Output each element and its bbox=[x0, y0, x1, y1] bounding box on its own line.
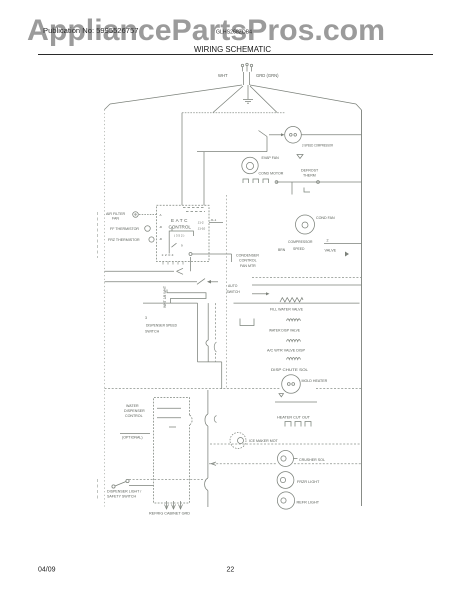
svg-text:DEFROST: DEFROST bbox=[301, 169, 319, 173]
svg-text:SWITCH: SWITCH bbox=[227, 290, 241, 294]
svg-text:SWITCH: SWITCH bbox=[145, 330, 160, 334]
svg-text:SPEED: SPEED bbox=[293, 247, 305, 251]
svg-text:DISPENSER: DISPENSER bbox=[124, 409, 145, 413]
svg-text:-D: -D bbox=[159, 225, 163, 229]
svg-text:COMPRESSOR: COMPRESSOR bbox=[288, 240, 313, 244]
svg-text:2-SPEED COMPRESSOR: 2-SPEED COMPRESSOR bbox=[302, 143, 333, 147]
svg-text:9: 9 bbox=[181, 244, 183, 248]
svg-text:J1-2: J1-2 bbox=[198, 221, 204, 225]
svg-text:REFRIG CABINET GRD: REFRIG CABINET GRD bbox=[149, 512, 190, 516]
svg-text:( 3 5 2 ): ( 3 5 2 ) bbox=[174, 234, 184, 238]
svg-text:Publication No: 5995526757: Publication No: 5995526757 bbox=[43, 26, 138, 35]
svg-text:(OPTIONAL): (OPTIONAL) bbox=[122, 436, 143, 440]
svg-text:EVAP FAN: EVAP FAN bbox=[262, 156, 280, 160]
svg-text:FF THERMISTOR: FF THERMISTOR bbox=[110, 227, 139, 231]
svg-text:WHT 1/8 WHT: WHT 1/8 WHT bbox=[163, 286, 167, 308]
svg-text:FAN: FAN bbox=[112, 217, 119, 221]
svg-text:3: 3 bbox=[145, 316, 147, 320]
svg-text:MOLD HEATER: MOLD HEATER bbox=[302, 379, 328, 383]
svg-text:WIRING SCHEMATIC: WIRING SCHEMATIC bbox=[194, 45, 271, 54]
svg-text:FRZR LIGHT: FRZR LIGHT bbox=[297, 480, 320, 484]
svg-text:2: 2 bbox=[327, 239, 329, 243]
svg-text:GRD (GRN): GRD (GRN) bbox=[256, 73, 279, 78]
svg-text:THERM: THERM bbox=[303, 174, 316, 178]
svg-text:FAN MTR: FAN MTR bbox=[240, 264, 256, 268]
svg-text:J1-10: J1-10 bbox=[198, 227, 206, 231]
svg-text:DISPENSER SPEED: DISPENSER SPEED bbox=[146, 324, 177, 328]
svg-text:REFR LIGHT: REFR LIGHT bbox=[297, 501, 320, 505]
svg-text:04/09: 04/09 bbox=[38, 567, 56, 574]
svg-text:AUTO: AUTO bbox=[228, 284, 238, 288]
svg-text:BRN: BRN bbox=[278, 248, 286, 252]
svg-text:ICE MAKER MOT: ICE MAKER MOT bbox=[249, 439, 279, 443]
svg-text:DISPENSER LIGHT /: DISPENSER LIGHT / bbox=[107, 490, 141, 494]
svg-text:DISP CHUTE SOL: DISP CHUTE SOL bbox=[271, 368, 308, 372]
svg-text:WATER DISP VALVE: WATER DISP VALVE bbox=[269, 329, 301, 333]
svg-text:FILL WATER VALVE: FILL WATER VALVE bbox=[270, 308, 304, 312]
svg-text:FRZ THERMISTOR: FRZ THERMISTOR bbox=[108, 238, 140, 242]
svg-text:A: A bbox=[160, 213, 162, 217]
svg-text:-D: -D bbox=[159, 237, 163, 241]
svg-text:CONDENSER: CONDENSER bbox=[236, 254, 259, 258]
svg-text:J1-1: J1-1 bbox=[211, 218, 217, 222]
svg-text:CONTROL: CONTROL bbox=[125, 414, 143, 418]
svg-text:HEATER CUT OUT: HEATER CUT OUT bbox=[277, 416, 311, 420]
svg-text:COND FAN: COND FAN bbox=[316, 216, 335, 220]
svg-text:COND MOTOR: COND MOTOR bbox=[259, 172, 284, 176]
svg-text:CRUSHER SOL: CRUSHER SOL bbox=[299, 458, 325, 462]
svg-text:EATC: EATC bbox=[171, 218, 189, 223]
svg-text:VALVE: VALVE bbox=[325, 249, 337, 253]
svg-text:SAFETY SWITCH: SAFETY SWITCH bbox=[107, 495, 136, 499]
svg-text:22: 22 bbox=[227, 567, 235, 574]
svg-text:1: 2: 3: 4:: 1: 2: 3: 4: bbox=[162, 253, 175, 257]
svg-text:WATER: WATER bbox=[126, 404, 139, 408]
svg-text:CONTROL: CONTROL bbox=[239, 259, 257, 263]
svg-text:CONTROL: CONTROL bbox=[169, 225, 192, 230]
svg-text:WHT: WHT bbox=[218, 73, 228, 78]
svg-text:A/C WTR VALVE DISP: A/C WTR VALVE DISP bbox=[267, 349, 306, 353]
svg-text:AIR FILTER: AIR FILTER bbox=[106, 212, 126, 216]
svg-text:GLHS268ZDB4: GLHS268ZDB4 bbox=[216, 30, 252, 36]
